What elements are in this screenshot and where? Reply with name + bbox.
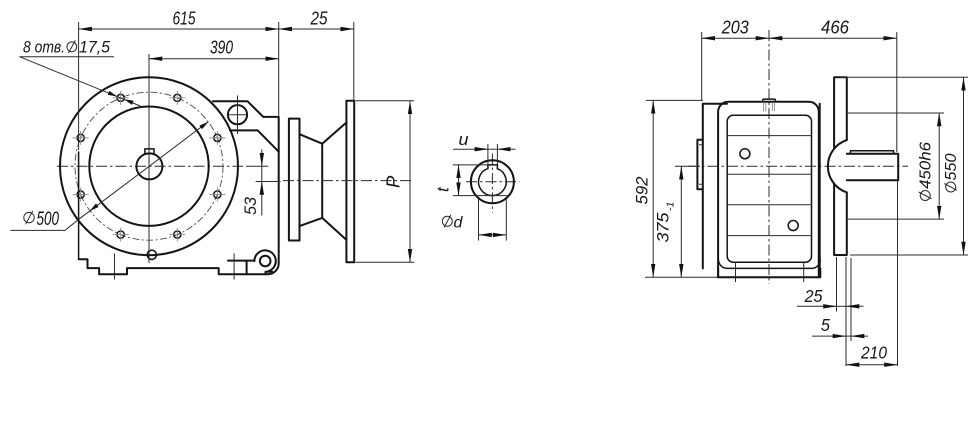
svg-text:d: d [454, 214, 464, 231]
svg-text:17,5: 17,5 [79, 37, 111, 56]
svg-text:P: P [383, 175, 404, 188]
svg-text:25: 25 [310, 9, 329, 29]
svg-text:25: 25 [804, 286, 823, 306]
svg-text:8 отв.: 8 отв. [23, 37, 65, 56]
svg-text:450h6: 450h6 [918, 142, 935, 189]
svg-text:210: 210 [860, 343, 887, 363]
svg-text:592: 592 [634, 177, 652, 205]
svg-text:500: 500 [37, 209, 60, 230]
svg-text:550: 550 [943, 153, 960, 180]
svg-text:-1: -1 [665, 202, 677, 211]
svg-text:u: u [459, 130, 470, 149]
svg-text:5: 5 [821, 315, 830, 335]
svg-text:466: 466 [821, 18, 850, 38]
svg-text:615: 615 [173, 9, 197, 29]
svg-text:390: 390 [210, 38, 233, 58]
svg-text:203: 203 [721, 18, 749, 38]
svg-text:375: 375 [655, 212, 673, 243]
svg-text:53: 53 [241, 196, 260, 215]
